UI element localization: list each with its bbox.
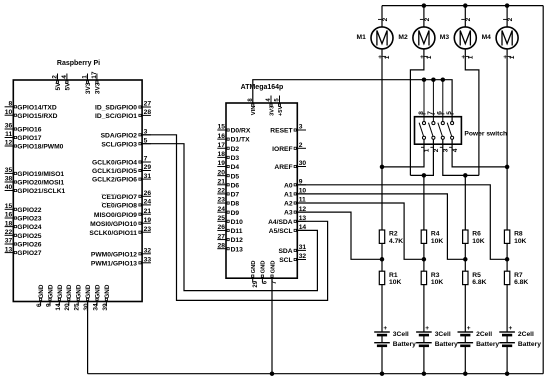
svg-text:26: 26 xyxy=(144,190,152,197)
svg-text:ID_SC/GPIO1: ID_SC/GPIO1 xyxy=(95,113,137,120)
ATMega pin 5 +5V (top) xyxy=(279,96,281,104)
ATMega pin 18 D3 xyxy=(217,156,226,158)
svg-text:GPIO20/MOSI1: GPIO20/MOSI1 xyxy=(17,180,64,187)
power switch S1 xyxy=(415,117,462,145)
ATMega pin 3 RESET xyxy=(297,129,306,131)
wire M4 top xyxy=(506,6,508,27)
RPi pin 8 GPIO14/TXD xyxy=(5,106,14,108)
junction top rail xyxy=(422,3,427,8)
svg-text:2: 2 xyxy=(382,17,389,21)
wire battery BT2 to ground rail xyxy=(423,346,425,374)
RPi pin 35 GPIO19/MISO1 xyxy=(5,172,14,174)
svg-text:MISO0/GPIO9: MISO0/GPIO9 xyxy=(94,212,137,219)
resistor R3 xyxy=(421,271,426,284)
svg-text:2: 2 xyxy=(433,148,440,152)
svg-text:D7: D7 xyxy=(231,192,240,199)
ATMega pin 4 3V3 (top) xyxy=(270,96,272,104)
svg-text:A3: A3 xyxy=(284,210,293,217)
ATMega pin 15 D0/RX xyxy=(217,129,226,131)
ATMega pin 10 A1 xyxy=(297,193,306,195)
svg-text:GPIO24: GPIO24 xyxy=(17,224,41,231)
svg-text:35: 35 xyxy=(5,167,13,174)
RPi pin 11 GPIO17 xyxy=(5,137,14,139)
junction divider col2 xyxy=(422,257,427,262)
ATMega pin 16 D1/TX xyxy=(217,138,226,140)
svg-text:22: 22 xyxy=(218,188,226,195)
svg-text:3V3: 3V3 xyxy=(269,105,275,116)
Raspberry Pi U1 xyxy=(13,80,142,302)
ATMega pin 32 SCL xyxy=(297,259,306,261)
wire A1 to column 3 divider xyxy=(297,194,465,259)
svg-text:2: 2 xyxy=(52,75,59,79)
svg-text:CE1/GPIO7: CE1/GPIO7 xyxy=(102,194,138,201)
svg-text:28: 28 xyxy=(144,109,152,116)
svg-text:D9: D9 xyxy=(231,210,240,217)
svg-text:GND: GND xyxy=(47,284,54,298)
junction VIN rail xyxy=(431,77,436,82)
wire R4 to junction xyxy=(423,243,425,259)
svg-text:SDA/GPIO2: SDA/GPIO2 xyxy=(101,132,138,139)
wire SCL: RPi GPIO3 to ATMega A5/SCL xyxy=(142,144,317,291)
junction col4 xyxy=(505,165,510,170)
junction ground rail col1 xyxy=(380,371,385,376)
svg-text:MOSI0/GPIO10: MOSI0/GPIO10 xyxy=(90,221,137,228)
svg-text:23: 23 xyxy=(144,226,152,233)
svg-text:D6: D6 xyxy=(231,182,240,189)
svg-text:1: 1 xyxy=(384,55,391,59)
svg-text:GPIO17: GPIO17 xyxy=(17,135,41,142)
RPi pin 34 GND (bottom) xyxy=(96,302,98,306)
svg-text:37: 37 xyxy=(5,238,13,245)
svg-text:2Cell: 2Cell xyxy=(518,331,534,338)
svg-text:10: 10 xyxy=(5,109,13,116)
svg-text:4.7K: 4.7K xyxy=(389,238,403,245)
svg-text:D4: D4 xyxy=(231,164,240,171)
wire A0 to column 4 divider xyxy=(297,185,507,259)
svg-text:16: 16 xyxy=(5,212,13,219)
junction divider col3 xyxy=(463,257,468,262)
svg-text:GPIO16: GPIO16 xyxy=(17,127,41,134)
svg-text:29: 29 xyxy=(253,280,259,287)
svg-text:GND: GND xyxy=(57,284,64,298)
svg-text:D1/TX: D1/TX xyxy=(231,137,250,144)
svg-text:15: 15 xyxy=(218,124,226,131)
svg-text:R7: R7 xyxy=(514,272,523,279)
wire SDA: RPi GPIO2 to ATMega A4/SDA xyxy=(142,135,328,301)
svg-text:R5: R5 xyxy=(472,272,481,279)
svg-text:1: 1 xyxy=(424,148,431,152)
svg-text:VIN: VIN xyxy=(251,106,257,116)
wire column 3 down xyxy=(464,175,466,230)
svg-text:GCLK1/GPIO5: GCLK1/GPIO5 xyxy=(92,168,137,175)
svg-text:A5/SCL: A5/SCL xyxy=(269,228,293,235)
junction col1 xyxy=(380,165,385,170)
RPi pin 17 3V3 (top) xyxy=(96,74,98,81)
svg-text:A0: A0 xyxy=(284,182,293,189)
svg-text:D12: D12 xyxy=(231,237,244,244)
svg-text:3V3: 3V3 xyxy=(95,82,102,94)
motor M1 xyxy=(371,27,393,49)
svg-text:ID_SD/GPIO0: ID_SD/GPIO0 xyxy=(95,105,137,112)
junction VIN rail xyxy=(422,77,427,82)
switch pin 7 number xyxy=(432,113,435,115)
svg-text:10K: 10K xyxy=(389,279,401,286)
M1 pin 1 mark xyxy=(383,55,386,57)
wire column 2 down xyxy=(423,175,425,230)
battery BT2 xyxy=(416,331,432,333)
RPi pin 22 GPIO25 xyxy=(5,234,14,236)
RPi pin 39 GND (bottom) xyxy=(105,302,107,306)
svg-text:40: 40 xyxy=(5,184,13,191)
svg-text:1: 1 xyxy=(467,55,474,59)
svg-text:D8: D8 xyxy=(231,201,240,208)
svg-text:28: 28 xyxy=(218,242,226,249)
ATMega pin 13 A4/SDA xyxy=(297,220,306,222)
svg-text:6.8K: 6.8K xyxy=(472,279,486,286)
svg-text:RESET: RESET xyxy=(270,128,293,135)
svg-text:17: 17 xyxy=(91,71,98,79)
RPi pin 32 PWM0/GPIO12 xyxy=(142,253,151,255)
ATMega pin 19 D4 xyxy=(217,166,226,168)
svg-text:12: 12 xyxy=(5,140,13,147)
svg-text:D13: D13 xyxy=(231,246,244,253)
M2 pin 1 mark xyxy=(425,55,428,57)
svg-text:16: 16 xyxy=(218,133,226,140)
wire junction to R7 xyxy=(506,259,508,271)
ATMega pin 22 D7 xyxy=(217,193,226,195)
wire switch pin 2 to M2 xyxy=(410,140,433,176)
wire M1 top xyxy=(381,6,383,27)
svg-text:27: 27 xyxy=(218,233,226,240)
wire top rail xyxy=(382,5,543,7)
svg-text:19: 19 xyxy=(218,160,226,167)
svg-text:IOREF: IOREF xyxy=(272,146,292,153)
svg-text:3: 3 xyxy=(299,124,303,131)
ATMega pin 9 A0 xyxy=(297,184,306,186)
svg-text:2: 2 xyxy=(299,142,303,149)
svg-text:4: 4 xyxy=(452,148,459,152)
switch pin 6 stub xyxy=(442,80,444,122)
svg-text:+: + xyxy=(467,325,471,332)
RPi pin 40 GPIO21/SCLK1 xyxy=(5,190,14,192)
svg-text:GND: GND xyxy=(94,284,101,298)
svg-text:+: + xyxy=(509,325,513,332)
RPi pin 1 3V3 (top) xyxy=(87,74,89,81)
RPi pin 2 5V (top) xyxy=(57,74,59,81)
svg-text:2Cell: 2Cell xyxy=(476,331,492,338)
svg-text:27: 27 xyxy=(144,101,152,108)
battery BT3 xyxy=(458,331,474,333)
battery BT1 xyxy=(374,331,390,333)
svg-text:GND: GND xyxy=(85,284,92,298)
svg-text:3V3: 3V3 xyxy=(85,82,92,94)
svg-text:GND: GND xyxy=(251,261,257,274)
wire R6 to junction xyxy=(464,243,466,259)
svg-text:30: 30 xyxy=(83,303,90,311)
wire R8 to junction xyxy=(506,243,508,259)
switch pin 8 number xyxy=(422,113,425,115)
svg-text:GCLK2/GPIO6: GCLK2/GPIO6 xyxy=(92,177,137,184)
wire R1 to battery xyxy=(381,285,383,332)
svg-text:AREF: AREF xyxy=(274,164,292,171)
svg-text:R2: R2 xyxy=(389,231,398,238)
svg-text:29: 29 xyxy=(144,164,152,171)
svg-text:M3: M3 xyxy=(440,34,450,41)
svg-text:M1: M1 xyxy=(357,34,367,41)
RPi pin 9 GND (bottom) xyxy=(49,302,51,306)
resistor R4 xyxy=(421,230,426,243)
RPi pin 38 GPIO20/MOSI1 xyxy=(5,181,14,183)
wire M2 bottom jog to switch pin 2 net xyxy=(410,49,424,175)
wire VIN rail: ATMega VIN to power switch xyxy=(253,80,452,122)
wire R3 to battery xyxy=(423,285,425,332)
svg-text:D5: D5 xyxy=(231,173,240,180)
svg-text:8: 8 xyxy=(418,111,425,115)
wire ground rail (bottom) xyxy=(88,373,544,375)
M4 pin 1 mark xyxy=(508,55,511,57)
RPi pin 3 SDA/GPIO2 xyxy=(142,134,151,136)
svg-text:5V: 5V xyxy=(55,82,62,91)
ATMega pin 21 D6 xyxy=(217,184,226,186)
RPi pin 16 GPIO23 xyxy=(5,217,14,219)
svg-text:+: + xyxy=(425,325,429,332)
svg-text:5V: 5V xyxy=(65,82,72,91)
wire A3 to column 1 divider xyxy=(297,212,382,259)
ATMega pin 31 SDA xyxy=(297,249,306,251)
svg-text:6.8K: 6.8K xyxy=(514,279,528,286)
wire M1 bottom down to column 1 xyxy=(381,49,383,230)
wire R5 to battery xyxy=(464,285,466,332)
RPi pin 37 GPIO26 xyxy=(5,243,14,245)
switch pin 8 stub xyxy=(423,80,425,122)
wire battery BT1 to ground rail xyxy=(381,346,383,374)
svg-text:26: 26 xyxy=(218,224,226,231)
resistor R7 xyxy=(504,271,509,284)
svg-text:3: 3 xyxy=(443,148,450,152)
RPi pin 27 ID_SD/GPIO0 xyxy=(142,106,151,108)
RPi pin 19 MOSI0/GPIO10 xyxy=(142,222,151,224)
switch pin 2 number xyxy=(430,146,433,148)
svg-text:Raspberry Pi: Raspberry Pi xyxy=(57,60,100,67)
RPi pin 12 GPIO18/PWM0 xyxy=(5,145,14,147)
resistor R2 xyxy=(379,230,384,243)
svg-text:CE0/GPIO8: CE0/GPIO8 xyxy=(102,203,138,210)
wire M2 top xyxy=(423,6,425,27)
svg-text:R8: R8 xyxy=(514,231,523,238)
svg-text:R3: R3 xyxy=(431,272,440,279)
RPi pin 23 SCLK0/GPIO11 xyxy=(142,231,151,233)
switch pole 2 contacts xyxy=(432,122,435,125)
RPi pin 24 CE0/GPIO8 xyxy=(142,204,151,206)
motor M3 xyxy=(454,27,476,49)
wire battery BT3 to ground rail xyxy=(464,346,466,374)
svg-text:D11: D11 xyxy=(231,228,243,235)
svg-text:2: 2 xyxy=(424,17,431,21)
svg-text:GND: GND xyxy=(76,284,83,298)
svg-text:10K: 10K xyxy=(431,279,443,286)
svg-text:14: 14 xyxy=(55,303,62,311)
svg-text:GPIO23: GPIO23 xyxy=(17,216,41,223)
svg-text:19: 19 xyxy=(144,217,152,224)
ATMega pin 27 D12 xyxy=(217,239,226,241)
svg-text:7: 7 xyxy=(427,111,434,115)
wire junction to R3 xyxy=(423,259,425,271)
resistor R6 xyxy=(463,230,468,243)
svg-text:3Cell: 3Cell xyxy=(393,331,409,338)
wire A2 to column 2 divider xyxy=(297,203,424,259)
svg-text:Battery: Battery xyxy=(518,341,541,348)
svg-text:5: 5 xyxy=(446,111,453,115)
svg-text:PWM1/GPIO13: PWM1/GPIO13 xyxy=(91,260,137,267)
svg-text:R4: R4 xyxy=(431,231,440,238)
svg-text:17: 17 xyxy=(218,142,226,149)
svg-text:GND: GND xyxy=(66,284,73,298)
switch pin 5 number xyxy=(451,113,454,115)
junction divider col1 xyxy=(380,257,385,262)
svg-text:18: 18 xyxy=(5,220,13,227)
svg-text:10K: 10K xyxy=(514,238,526,245)
svg-text:Battery: Battery xyxy=(393,341,416,348)
wire switch pin 3 to M3 xyxy=(443,140,479,176)
svg-text:SCL/GPIO3: SCL/GPIO3 xyxy=(101,141,137,148)
ATMega pin 26 D11 xyxy=(217,229,226,231)
svg-text:A2: A2 xyxy=(284,201,293,208)
ATMega pin 7 GND (bottom) xyxy=(271,278,273,282)
wire R2 to junction xyxy=(381,243,383,259)
junction col2 top xyxy=(422,173,427,178)
ATMega pin 14 A5/SCL xyxy=(297,229,306,231)
svg-text:R6: R6 xyxy=(472,231,481,238)
RPi pin 30 GND (bottom) xyxy=(87,302,89,306)
svg-text:6: 6 xyxy=(36,303,43,307)
wire switch pin 1 to M1/column1 xyxy=(382,140,424,167)
svg-text:20: 20 xyxy=(64,303,71,311)
wire right edge down xyxy=(542,6,544,374)
wire switch pin 4 to M4/column4 xyxy=(452,140,507,167)
svg-text:GND: GND xyxy=(261,261,267,274)
wire M4 bottom down to column 4 xyxy=(506,49,508,230)
wire battery BT4 to ground rail xyxy=(506,346,508,374)
M3 pin 2 mark xyxy=(461,18,464,20)
RPi pin 15 GPIO22 xyxy=(5,208,14,210)
ATMega pin 6 GND (bottom) xyxy=(261,278,263,282)
RPi pin 21 MISO0/GPIO9 xyxy=(142,213,151,215)
svg-text:18: 18 xyxy=(218,151,226,158)
RPi pin 5 SCL/GPIO3 xyxy=(142,143,151,145)
svg-text:M2: M2 xyxy=(398,34,408,41)
wire ATMega GND down xyxy=(271,278,273,374)
svg-text:11: 11 xyxy=(5,131,12,138)
svg-text:24: 24 xyxy=(144,199,152,206)
junction top rail xyxy=(463,3,468,8)
RPi pin 7 GCLK0/GPIO4 xyxy=(142,161,151,163)
svg-text:1: 1 xyxy=(509,55,516,59)
svg-text:GND: GND xyxy=(38,284,45,298)
svg-text:30: 30 xyxy=(299,160,307,167)
ATMega pin 17 D2 xyxy=(217,147,226,149)
svg-text:GCLK0/GPIO4: GCLK0/GPIO4 xyxy=(92,160,137,167)
junction col3 top xyxy=(463,173,468,178)
ATMega pin 25 D10 xyxy=(217,220,226,222)
resistor R5 xyxy=(463,271,468,284)
svg-text:GND: GND xyxy=(104,284,111,298)
ATMega pin 20 D5 xyxy=(217,175,226,177)
svg-text:15: 15 xyxy=(5,203,13,210)
junction divider col4 xyxy=(505,257,510,262)
ATMega pin 2 IOREF xyxy=(297,147,306,149)
wire RPi GND down xyxy=(87,302,89,374)
svg-text:Battery: Battery xyxy=(435,341,458,348)
switch pin 1 number xyxy=(421,146,424,148)
svg-text:33: 33 xyxy=(144,257,152,264)
svg-text:7: 7 xyxy=(144,156,148,163)
RPi pin 33 PWM1/GPIO13 xyxy=(142,262,151,264)
svg-text:1: 1 xyxy=(426,55,433,59)
svg-text:GND: GND xyxy=(270,261,276,274)
svg-text:32: 32 xyxy=(144,248,152,255)
svg-text:39: 39 xyxy=(102,303,109,311)
ATMega pin 30 AREF xyxy=(297,166,306,168)
svg-text:SCLK0/GPIO11: SCLK0/GPIO11 xyxy=(89,230,137,237)
M4 pin 2 mark xyxy=(503,18,506,20)
svg-text:GPIO19/MISO1: GPIO19/MISO1 xyxy=(17,171,64,178)
switch pin 3 number xyxy=(440,146,443,148)
ATMega pin 12 A3 xyxy=(297,211,306,213)
svg-text:A4/SDA: A4/SDA xyxy=(268,219,293,226)
switch pin 7 stub xyxy=(432,80,434,122)
svg-text:10K: 10K xyxy=(472,238,484,245)
wire M3 bottom jog to switch pin 3 net xyxy=(465,49,479,175)
svg-text:32: 32 xyxy=(299,253,307,260)
ATMega pin 28 D13 xyxy=(217,248,226,250)
svg-text:20: 20 xyxy=(218,169,226,176)
RPi pin 31 GCLK2/GPIO6 xyxy=(142,178,151,180)
svg-text:D2: D2 xyxy=(231,146,240,153)
svg-text:Power switch: Power switch xyxy=(464,130,507,137)
svg-text:R1: R1 xyxy=(389,272,398,279)
svg-text:ATMega164p: ATMega164p xyxy=(241,84,284,91)
ATMega164p U2 xyxy=(226,103,297,278)
svg-text:8: 8 xyxy=(8,101,12,108)
RPi pin 36 GPIO16 xyxy=(5,128,14,130)
svg-text:1: 1 xyxy=(82,75,89,79)
RPi pin 20 GND (bottom) xyxy=(68,302,70,306)
svg-text:GPIO15/RXD: GPIO15/RXD xyxy=(17,113,57,120)
svg-text:GPIO27: GPIO27 xyxy=(17,250,41,257)
svg-text:13: 13 xyxy=(5,246,13,253)
svg-text:GPIO25: GPIO25 xyxy=(17,233,41,240)
svg-text:31: 31 xyxy=(299,244,307,251)
switch pin 4 number xyxy=(449,146,452,148)
svg-text:GPIO18/PWM0: GPIO18/PWM0 xyxy=(17,144,63,151)
junction top rail xyxy=(505,3,510,8)
svg-text:34: 34 xyxy=(92,303,99,311)
svg-text:31: 31 xyxy=(144,173,152,180)
svg-text:GPIO14/TXD: GPIO14/TXD xyxy=(17,104,57,111)
ATMega pin 23 D8 xyxy=(217,202,226,204)
RPi pin 6 GND (bottom) xyxy=(40,302,42,306)
RPi pin 25 GND (bottom) xyxy=(77,302,79,306)
switch pole 3 contacts xyxy=(441,122,444,125)
switch pole 4 contacts xyxy=(451,122,454,125)
svg-text:A1: A1 xyxy=(284,192,293,199)
junction VIN rail xyxy=(441,77,446,82)
svg-text:PWM0/GPIO12: PWM0/GPIO12 xyxy=(91,251,137,258)
battery BT4 xyxy=(499,331,515,333)
M3 pin 1 mark xyxy=(466,55,469,57)
svg-text:3Cell: 3Cell xyxy=(435,331,451,338)
RPi pin 4 5V (top) xyxy=(66,74,68,81)
